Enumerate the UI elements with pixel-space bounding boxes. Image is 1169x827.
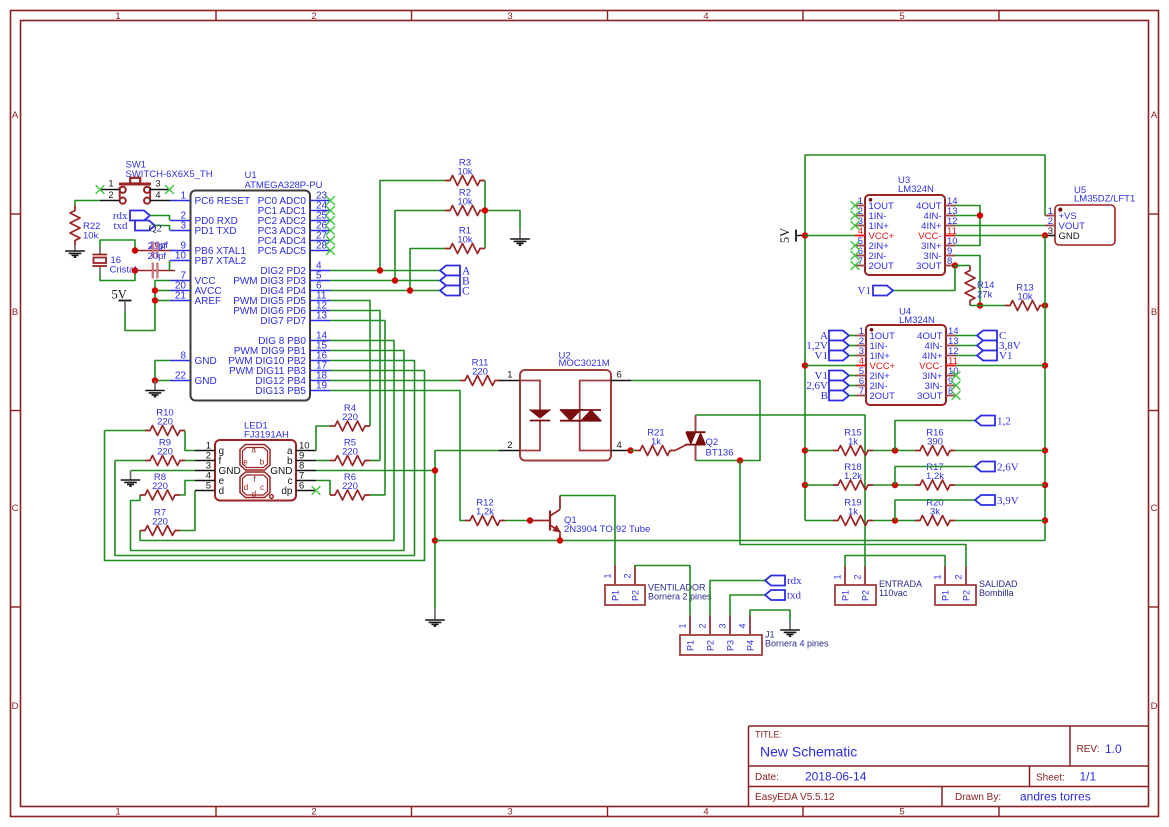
- net flag rdx (to PD0 RXD): [113, 210, 150, 222]
- pushbutton SW1 SWITCH-6X6X5_TH: [100, 160, 213, 204]
- wire VENTILADOR P2 to J1 P1: [635, 565, 690, 616]
- wire R1-R2-R3 common: [485, 181, 520, 249]
- net flag 3,9V: [975, 495, 1019, 507]
- net flag txd (to PD1 TXD): [113, 220, 155, 232]
- svg-text:13: 13: [316, 311, 328, 322]
- svg-text:4: 4: [155, 190, 160, 200]
- svg-text:FJ3191AH: FJ3191AH: [244, 430, 289, 441]
- svg-text:27k: 27k: [977, 290, 993, 301]
- no-connect X U1 pin 26: [326, 226, 335, 235]
- no-connect X U4 right pin: [952, 371, 961, 380]
- svg-text:1: 1: [507, 370, 512, 381]
- node U3 3OUT: [952, 262, 958, 268]
- svg-text:220: 220: [157, 447, 173, 458]
- wire U1 GND pins: [155, 361, 170, 381]
- wire LED pin7 to R6: [316, 481, 330, 496]
- svg-text:Drawn By:: Drawn By:: [955, 792, 1001, 803]
- wire rdx to U1 pin 2: [150, 216, 170, 221]
- wire 3OUT to R14: [955, 265, 970, 267]
- svg-text:B: B: [12, 307, 18, 318]
- svg-text:P1: P1: [686, 640, 696, 651]
- svg-text:390: 390: [927, 437, 943, 448]
- node return row2: [1042, 482, 1048, 488]
- no-connect X U3 left pin: [851, 211, 860, 220]
- svg-text:3OUT: 3OUT: [916, 261, 942, 272]
- svg-text:3,9V: 3,9V: [997, 495, 1019, 507]
- svg-text:6: 6: [299, 481, 304, 492]
- svg-text:220: 220: [342, 447, 358, 458]
- svg-text:220: 220: [152, 481, 168, 492]
- svg-text:Q2: Q2: [706, 437, 719, 448]
- wire U3 VCC- to U5 GND: [955, 235, 1045, 237]
- wire U3 4IN+ to U5 VOUT: [955, 225, 1045, 227]
- ground below U1 GND: [145, 381, 165, 397]
- svg-text:a: a: [251, 446, 256, 455]
- svg-text:ATMEGA328P-PU: ATMEGA328P-PU: [245, 180, 323, 191]
- wire Q2 MT2 to ENTRADA P2: [696, 415, 866, 567]
- resistor R2 10k: [445, 188, 485, 216]
- node row1 tap: [892, 447, 898, 453]
- resistor R18 1,2k: [833, 462, 873, 490]
- wire ground rail: [435, 540, 1045, 542]
- svg-text:GND: GND: [1059, 231, 1080, 242]
- svg-text:1: 1: [108, 179, 113, 189]
- wire 5V rail: [805, 155, 1045, 521]
- resistor R16 390: [915, 428, 955, 456]
- svg-text:1,2k: 1,2k: [844, 471, 862, 482]
- no-connect X U1 pin 24: [326, 206, 335, 215]
- svg-text:3: 3: [507, 11, 512, 22]
- node GND trunk / ground rail: [432, 537, 438, 543]
- no-connect X U3 left pin: [851, 261, 860, 270]
- svg-text:txd: txd: [787, 590, 802, 602]
- wire R10 to LED pin1: [105, 431, 196, 451]
- resistor R13 10k: [1005, 283, 1045, 311]
- wire crystal loop: [100, 240, 135, 281]
- stray text Q2: [149, 223, 162, 235]
- wire R9 to LED pin2: [115, 460, 195, 462]
- net flag rdx at J1: [765, 575, 802, 587]
- svg-text:P2: P2: [861, 590, 871, 601]
- svg-text:5: 5: [206, 481, 211, 492]
- transistor Q1 2N3904: [530, 496, 650, 541]
- wire txd to U1 pin 3: [155, 226, 170, 231]
- svg-text:PC5 ADC5: PC5 ADC5: [258, 246, 307, 257]
- net flag B: [440, 276, 470, 288]
- connector SALIDA Bombilla: [933, 567, 1019, 606]
- svg-text:2: 2: [311, 11, 316, 22]
- wire DIG7 to R6: [330, 321, 385, 496]
- svg-text:LM35DZ/LFT1: LM35DZ/LFT1: [1074, 194, 1135, 205]
- node rail divider row2: [802, 482, 808, 488]
- svg-text:1: 1: [115, 807, 120, 818]
- svg-text:A: A: [12, 110, 19, 121]
- svg-text:1: 1: [678, 623, 688, 628]
- net flag V1 at U3: [858, 285, 893, 297]
- svg-text:B: B: [821, 390, 828, 402]
- svg-text:3: 3: [507, 807, 512, 818]
- svg-text:V1: V1: [815, 350, 828, 362]
- wire DIG11 to R10 bus: [105, 371, 425, 561]
- ground at LED pin3: [121, 471, 141, 487]
- svg-text:220: 220: [152, 517, 168, 528]
- wire R6 right: [370, 494, 385, 496]
- svg-text:PB7 XTAL2: PB7 XTAL2: [195, 256, 247, 267]
- svg-text:10k: 10k: [457, 197, 473, 208]
- net flag A: [440, 266, 471, 278]
- svg-text:REV:: REV:: [1077, 744, 1100, 755]
- svg-text:8: 8: [180, 351, 186, 362]
- svg-text:2: 2: [698, 623, 708, 628]
- node return row1: [1042, 447, 1048, 453]
- svg-text:PD1 TXD: PD1 TXD: [195, 226, 237, 237]
- resistor R15 1k: [833, 428, 873, 456]
- svg-text:28: 28: [316, 241, 328, 252]
- net flag txd at J1: [765, 590, 802, 602]
- svg-text:3: 3: [1048, 226, 1053, 237]
- resistor R10 220: [145, 408, 185, 436]
- svg-text:GND: GND: [195, 356, 217, 367]
- svg-text:BT136: BT136: [706, 448, 734, 459]
- svg-text:220: 220: [342, 412, 358, 423]
- svg-text:Bornera 2 pines: Bornera 2 pines: [648, 592, 712, 602]
- svg-text:GND: GND: [195, 376, 217, 387]
- net flag 2,6V: [975, 462, 1019, 474]
- wire DIG13 to R12: [330, 391, 465, 521]
- wire LED pin9 to R5: [316, 460, 330, 462]
- svg-text:Sheet:: Sheet:: [1036, 773, 1065, 784]
- wire Q1 collector to VENTILADOR P1: [560, 496, 615, 566]
- svg-text:5V: 5V: [112, 288, 127, 302]
- svg-text:txd: txd: [113, 220, 128, 232]
- net flag C at U4 right: [956, 330, 1006, 342]
- crystal X1 16 Cristal: [92, 247, 136, 276]
- svg-text:e: e: [243, 458, 248, 467]
- resistor R4 220: [330, 403, 370, 431]
- no-connect X U1 pin 27: [326, 236, 335, 245]
- svg-text:AREF: AREF: [195, 296, 222, 307]
- ground below R22: [65, 246, 85, 258]
- no-connect X U3 left pin: [851, 251, 860, 260]
- svg-text:4: 4: [617, 440, 622, 451]
- resistor R12 1,2k: [465, 498, 505, 526]
- wire LED pin8 GND run: [316, 470, 435, 472]
- wire J1 P3 to txd: [730, 595, 765, 616]
- no-connect X U1 pin 23: [326, 196, 335, 205]
- svg-text:3: 3: [155, 179, 160, 189]
- svg-text:P1: P1: [841, 590, 851, 601]
- wire U3 4OUT feedback: [955, 206, 980, 246]
- resistor R17 1,2k: [915, 462, 955, 490]
- svg-text:DIG7 PD7: DIG7 PD7: [260, 316, 306, 327]
- no-connect X U1 pin 25: [326, 216, 335, 225]
- svg-text:10: 10: [175, 251, 187, 262]
- resistor R6 220: [330, 472, 370, 500]
- resistor R22 10k: [70, 206, 100, 246]
- svg-text:2: 2: [311, 807, 316, 818]
- svg-text:LM324N: LM324N: [898, 184, 934, 195]
- svg-text:dp: dp: [281, 486, 293, 497]
- wire divider row2: [805, 484, 1045, 486]
- net flag 1,2: [975, 416, 1011, 428]
- node U2 pin4: [627, 447, 633, 453]
- svg-text:V1: V1: [858, 285, 871, 297]
- wire divider return rail: [1044, 236, 1046, 541]
- svg-text:1: 1: [115, 11, 120, 22]
- ground at J1 P4: [780, 620, 800, 636]
- wire R14 bottom to R13: [970, 305, 1005, 307]
- wire U3 4IN-: [955, 215, 980, 217]
- svg-text:1: 1: [180, 191, 186, 202]
- net flag 2,6V at U4 pin: [806, 380, 856, 392]
- svg-text:EasyEDA V5.5.12: EasyEDA V5.5.12: [755, 792, 835, 803]
- node PD2-R3: [377, 267, 383, 273]
- power port 5V rail: [778, 228, 805, 243]
- svg-text:P1: P1: [941, 590, 951, 601]
- node GND trunk / LED GND: [432, 467, 438, 473]
- svg-text:1: 1: [833, 574, 843, 579]
- wire R2 left leg: [395, 211, 445, 281]
- svg-text:TITLE:: TITLE:: [755, 730, 782, 740]
- svg-text:D: D: [1151, 701, 1158, 712]
- mcu U1 ATMEGA328P-PU: [170, 170, 330, 401]
- net flag 1,2V at U4 pin: [806, 340, 856, 352]
- no-connect X U4 right pin: [952, 391, 961, 400]
- node crystal-XTAL1: [132, 247, 138, 253]
- wire tap 2,6V flag: [895, 467, 975, 486]
- net flag V1 at U4 pin: [815, 350, 856, 362]
- wire DIG12 to R11: [330, 380, 460, 382]
- svg-text:P2: P2: [631, 590, 641, 601]
- node PD4-R1: [407, 287, 413, 293]
- svg-text:20pf: 20pf: [148, 251, 167, 262]
- wire J1 P2 to rdx: [710, 581, 765, 616]
- node rail U3 VCC+: [802, 232, 808, 238]
- wire crystal to XTAL2: [135, 270, 175, 272]
- resistor R11 220: [460, 358, 500, 386]
- node U5 GND / divider return: [1042, 232, 1048, 238]
- svg-text:V1: V1: [999, 350, 1012, 362]
- node PD3-R2: [392, 277, 398, 283]
- no-connect X on SW1 pin 3: [165, 185, 174, 194]
- svg-text:P2: P2: [706, 640, 716, 651]
- node crystal-XTAL2: [132, 267, 138, 273]
- svg-text:2: 2: [853, 574, 863, 579]
- resistor R9 220: [145, 438, 185, 466]
- svg-text:Bombilla: Bombilla: [979, 588, 1014, 598]
- optocoupler U2 MOC3021M: [499, 351, 631, 461]
- svg-text:220: 220: [342, 481, 358, 492]
- svg-text:P4: P4: [746, 640, 756, 651]
- svg-text:1/1: 1/1: [1080, 770, 1097, 784]
- svg-text:d: d: [219, 486, 225, 497]
- power port 5V (AVCC): [112, 288, 132, 312]
- svg-text:DIG13 PB5: DIG13 PB5: [255, 386, 306, 397]
- node row2 tap: [892, 482, 898, 488]
- wire R7 to LED pin5: [180, 491, 195, 531]
- node AREF: [152, 297, 158, 303]
- svg-text:1,2: 1,2: [997, 416, 1011, 428]
- wire DIG9 to R8 bus: [131, 351, 405, 551]
- wire 5V to VCC/AVCC/AREF: [125, 281, 170, 331]
- node R14 bottom: [977, 302, 983, 308]
- resistor R14 27k: [965, 266, 994, 306]
- no-connect X U4 right pin: [952, 381, 961, 390]
- svg-text:Q2: Q2: [149, 223, 162, 235]
- net flag A at U4 pin: [820, 330, 856, 342]
- no-connect X LED pin 6 dp: [312, 486, 321, 495]
- svg-text:C: C: [12, 503, 19, 514]
- svg-text:10k: 10k: [457, 167, 473, 178]
- net flag V1 at U4 pin: [815, 370, 856, 382]
- svg-text:d: d: [252, 490, 256, 499]
- svg-text:22: 22: [175, 371, 187, 382]
- node return R13: [1042, 362, 1048, 368]
- wire divider row1: [805, 450, 1045, 452]
- node Q2 MT1 branch: [737, 457, 743, 463]
- svg-text:6: 6: [617, 370, 622, 381]
- wire U4 VCC+ to rail: [805, 365, 856, 367]
- svg-text:4: 4: [703, 11, 708, 22]
- no-connect X on SW1 pin 1: [96, 185, 105, 194]
- svg-text:220: 220: [157, 417, 173, 428]
- svg-text:Date:: Date:: [755, 772, 779, 783]
- svg-text:c: c: [260, 483, 264, 492]
- net flag 3,8V at U4 right: [956, 340, 1021, 352]
- svg-text:d: d: [244, 483, 248, 492]
- node rail U4 VCC+: [802, 362, 808, 368]
- svg-text:1k: 1k: [651, 437, 661, 448]
- svg-text:7: 7: [859, 386, 864, 397]
- svg-text:21: 21: [175, 291, 187, 302]
- svg-text:2018-06-14: 2018-06-14: [805, 770, 867, 784]
- wire R8 to LED pin4: [180, 481, 195, 496]
- svg-text:rdx: rdx: [787, 575, 802, 587]
- svg-text:3: 3: [718, 623, 728, 628]
- wire 3OUT branch to V1 flag: [893, 266, 955, 291]
- resistor R3 10k: [445, 158, 485, 186]
- sensor U5 LM35DZ/LFT1: [1045, 185, 1135, 245]
- svg-text:1: 1: [933, 574, 943, 579]
- svg-text:b: b: [260, 458, 265, 467]
- svg-text:1,2k: 1,2k: [476, 507, 494, 518]
- svg-text:B: B: [1151, 307, 1157, 318]
- wire U4 VCC- to return rail: [956, 365, 1045, 367]
- wire U1 PD4 to flag C: [330, 290, 440, 292]
- resistor R7 220: [140, 508, 180, 536]
- resistor R5 220: [330, 438, 370, 466]
- wire R5 right: [370, 460, 380, 462]
- connector VENTILADOR Bornera 2 pines: [603, 565, 713, 605]
- svg-text:5: 5: [899, 11, 904, 22]
- capacitor C2 20pf: [148, 251, 167, 279]
- svg-text:1k: 1k: [848, 437, 858, 448]
- svg-text:110vac: 110vac: [879, 588, 908, 598]
- svg-text:3: 3: [180, 221, 186, 232]
- wire R1 left leg: [410, 249, 445, 291]
- svg-text:3k: 3k: [930, 507, 940, 518]
- no-connect X U3 left pin: [851, 221, 860, 230]
- node U1 GND: [152, 377, 158, 383]
- svg-text:2N3904 TO-92 Tube: 2N3904 TO-92 Tube: [564, 524, 650, 535]
- wire divider row3: [805, 520, 1045, 522]
- svg-text:2OUT: 2OUT: [870, 391, 896, 402]
- svg-text:8: 8: [947, 256, 952, 267]
- wire XTAL2 jog: [169, 261, 171, 271]
- svg-text:2: 2: [623, 573, 633, 578]
- svg-text:19: 19: [316, 381, 328, 392]
- net flag C: [440, 286, 470, 298]
- connector J1 Bornera 4 pines: [678, 616, 830, 656]
- svg-text:P1: P1: [611, 590, 621, 601]
- svg-text:1.0: 1.0: [1105, 742, 1122, 756]
- ground main: [425, 608, 445, 626]
- svg-text:1,2k: 1,2k: [926, 471, 944, 482]
- node row3 tap: [892, 517, 898, 523]
- svg-text:220: 220: [472, 367, 488, 378]
- wire ENTRADA P1 to SALIDA P1: [845, 556, 945, 567]
- title block: [749, 726, 1149, 807]
- opamp U3 LM324N: [855, 175, 958, 275]
- resistor R20 3k: [915, 498, 955, 526]
- wire R3 left leg: [380, 181, 445, 271]
- wire DIG10 to R9 bus: [115, 361, 415, 556]
- net flag V1 at U4 right: [956, 350, 1012, 362]
- ground for R1-R3: [510, 230, 530, 246]
- wire LED pin3 GND: [131, 470, 196, 472]
- node rail divider row1: [802, 447, 808, 453]
- svg-text:C: C: [462, 286, 470, 298]
- svg-text:New Schematic: New Schematic: [760, 744, 857, 760]
- connector ENTRADA 110vac: [833, 567, 923, 606]
- resistor R8 220: [140, 472, 180, 500]
- wire DIG8 to R7 bus: [140, 341, 394, 541]
- svg-text:10k: 10k: [83, 231, 99, 242]
- node R2 common: [482, 207, 488, 213]
- svg-text:2: 2: [108, 190, 113, 200]
- wire DIG5 to R4: [330, 301, 370, 427]
- svg-text:2: 2: [507, 440, 512, 451]
- wire DIG6 to R5: [330, 311, 380, 461]
- svg-text:10k: 10k: [1017, 292, 1033, 303]
- triac Q2 BT136: [675, 415, 734, 461]
- wire tap 1,2 flag: [895, 421, 975, 451]
- svg-text:2OUT: 2OUT: [869, 261, 895, 272]
- svg-text:A: A: [1151, 110, 1158, 121]
- svg-text:PC6 RESET: PC6 RESET: [195, 196, 251, 207]
- svg-text:5: 5: [899, 807, 904, 818]
- svg-text:andres torres: andres torres: [1020, 790, 1091, 804]
- svg-text:10k: 10k: [457, 235, 473, 246]
- wire SW1 pin2 to R22: [75, 201, 100, 206]
- svg-text:1: 1: [603, 573, 613, 578]
- svg-text:D: D: [12, 701, 19, 712]
- svg-text:1k: 1k: [848, 507, 858, 518]
- svg-text:5V: 5V: [778, 228, 792, 243]
- node AVCC: [152, 287, 158, 293]
- wire Q2 MT1 to SALIDA P2: [740, 461, 966, 567]
- no-connect X U1 pin 28: [326, 246, 335, 255]
- node R13 right: [1042, 302, 1048, 308]
- wire U1 PD3 to flag B: [330, 280, 440, 282]
- capacitor C1 20pf: [148, 240, 169, 258]
- svg-text:P2: P2: [962, 590, 972, 601]
- node return row3: [1042, 517, 1048, 523]
- svg-text:4: 4: [703, 807, 708, 818]
- svg-text:C: C: [1151, 503, 1158, 514]
- wire LED pin10 to R4: [195, 426, 330, 451]
- wire crystal to XTAL1: [135, 250, 172, 252]
